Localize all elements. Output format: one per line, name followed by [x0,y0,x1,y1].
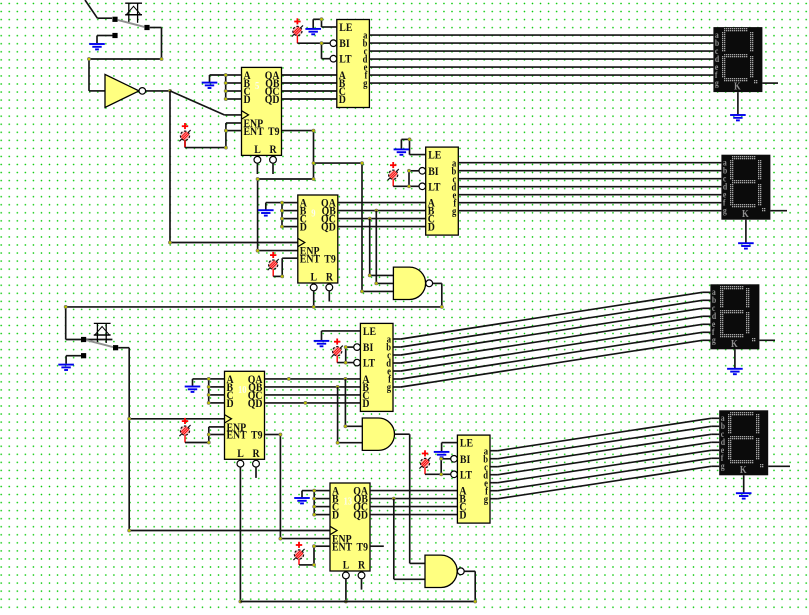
decoder U4 (74LS47) [419,147,458,235]
svg-text:LE: LE [428,149,441,162]
counter U5 (74LS160) [225,371,265,467]
wire U7 T9 stub [370,545,384,547]
svg-text:D: D [339,93,346,106]
svg-text:ENT: ENT [244,125,265,138]
power VCC5 for U5 enables [179,418,190,436]
NAND gate U9 [393,267,432,299]
svg-text:T9: T9 [324,253,336,266]
svg-text:13: 13 [344,496,353,508]
svg-text:LT: LT [428,180,441,193]
svg-text:T9: T9 [268,125,280,138]
wire U3 QB tap to U9 input [375,211,394,285]
svg-text:g: g [723,205,727,216]
ground for U7 inputs [294,498,310,503]
counter U7 (74LS160) [330,483,370,579]
switch SW2 (SPDT) [81,323,118,358]
wire U5 QB tap to U10 input [336,387,362,444]
7-segment display DS3 [710,284,759,350]
ground for SW1 [89,44,105,49]
wire U7 R pin stub [361,579,363,590]
svg-text:LT: LT [363,357,376,370]
7-segment display DS4 [719,410,768,476]
svg-text:K: K [740,464,747,476]
wire DS2 anode stub [770,210,787,212]
wire U5 T9 cascade to U7 ENP [265,433,331,540]
wire U7 data inputs A-D bus to ground [302,489,330,516]
wire U1 L pin stub [256,163,258,174]
wire U11 output to U5/U7 L pins [240,571,476,603]
wire U5 L pin to U11 output net [239,467,242,603]
ground for DS2 [738,243,754,248]
svg-text:R: R [358,559,366,572]
wire U4 LE to ground [401,138,425,155]
ground for DS1 [730,115,746,120]
svg-text:LT: LT [460,468,473,481]
svg-text:BI: BI [460,453,470,466]
wire U4 outputs a-g to display DS2 [458,163,721,211]
wire U2 LE to ground [313,18,337,29]
ground for U4 LE [394,149,410,154]
wire DS1 anode stub [762,82,778,84]
svg-text:LE: LE [460,437,473,450]
svg-text:g: g [484,494,488,506]
svg-text:g: g [715,77,719,88]
wire U6 outputs a-g to display DS3 [393,292,710,387]
svg-text:K: K [742,208,749,220]
wire U6 LE to ground [322,331,361,340]
ground for DS3 [727,369,743,374]
wire DS2 K to ground [745,220,747,243]
wire DS4 anode stub [768,465,790,467]
wire U5 R pin stub [255,467,257,478]
svg-text:R: R [270,143,278,156]
svg-text:D: D [332,509,339,522]
svg-text:R: R [326,271,334,284]
NAND gate U11 [425,555,464,587]
svg-text:L: L [311,271,318,284]
wire CLK1 down to counter U3 clock [168,91,297,244]
wire VCC8 red stem [424,467,426,474]
svg-text:QD: QD [265,93,280,106]
wire U1 data inputs A-D bus to ground [210,73,242,100]
wire U3 R pin stub [328,291,330,302]
7-segment display DS1 [713,27,762,93]
wire U8 outputs a-g to display DS4 [490,418,719,498]
wire VCC5 red stem [184,435,186,443]
wire U5 QA-QD to U6 A-D [265,377,361,404]
wire VCC1 red stem [184,140,186,147]
svg-text:T9: T9 [251,429,263,442]
power VCC3 for U3 ENT [268,252,279,270]
wire DS1 K to ground [737,92,739,114]
svg-text:D: D [428,221,435,234]
wire U9 output to U3 L and SW2 [64,283,443,339]
svg-text:L: L [343,559,350,572]
wire U10 output to U11 input [395,434,425,563]
svg-text:BI: BI [428,165,438,178]
wire U1 QA-QD to U2 A-D [282,75,337,99]
wire from off-page to SW1 common [85,0,112,18]
ground for U2 LE [305,29,321,34]
svg-text:D: D [362,397,369,410]
wire U3 L pin to node [313,291,315,307]
svg-text:D: D [300,221,307,234]
wire VCC5 to U5 ENP/ENT [185,427,225,444]
wire VCC6 to U6 LT and BI [337,346,353,365]
wire SW1 pole to ground [97,36,113,44]
wire U7 L pin to U11 output net [344,579,347,603]
svg-text:g: g [452,206,456,218]
svg-text:10: 10 [238,384,247,396]
wire U7 QB tap to U11 input [394,499,425,580]
ground for DS4 [736,493,752,498]
power VCC7 for U7 ENT [293,542,304,560]
wire U1 R pin stub [272,163,274,174]
svg-text:5: 5 [255,80,259,92]
wire VCC8 to U8 LT and BI [425,457,451,476]
wire VCC7 to U7 ENT [299,545,330,567]
wire DS4 K to ground [743,475,745,492]
power VCC4 for U4 BI/LT [388,162,399,180]
counter U1 (74LS160) [242,67,282,163]
power VCC8 for U8 BI/LT [419,450,430,468]
wire VCC4 to U4 LT and BI [393,169,419,188]
svg-text:K: K [734,81,741,93]
wire U3 QA-QD to U4 A-D [338,203,426,227]
wire VCC7 red stem [298,559,300,565]
wire DS3 anode stub [759,339,775,341]
wire VCC2 red stem [296,35,298,43]
svg-text:QD: QD [248,397,263,410]
switch SW1 (SPDT) [112,3,149,38]
svg-text:BI: BI [339,37,349,50]
ground for SW2 [58,365,74,370]
wire U3 data inputs A-D bus to ground [266,201,298,228]
svg-text:K: K [731,338,738,350]
ground for U5 inputs [185,387,201,392]
wire U7 QA-QD to U8 A-D [370,491,457,515]
wire U2 outputs a-g to display DS1 [369,35,713,83]
svg-text:g: g [387,382,391,394]
wire inverter output node CLK1 [146,89,172,92]
wire DS3 K to ground [734,349,736,368]
wire U1 T9 cascade to U3 ENP [256,129,315,252]
svg-text:g: g [721,460,725,471]
svg-text:ENT: ENT [332,541,353,554]
wire SW1 output down-left to inverter input [87,28,163,91]
svg-text:LE: LE [339,21,352,34]
7-segment display DS2 [721,155,770,221]
wire VCC3 to U3 ENT [273,258,298,278]
wire SW2 pole to ground [66,356,81,364]
power VCC1 for U1 enables [179,123,190,141]
ground for U3 inputs [258,210,274,215]
wire VCC3 red stem [272,269,274,276]
inverter U2 (NOT gate) [105,74,146,107]
svg-text:LE: LE [363,325,376,338]
wire U8 LE to ground [442,443,458,452]
wire VCC6 red stem [336,356,338,363]
wire U5 data inputs A-D bus to ground [193,377,225,404]
svg-text:g: g [712,334,716,345]
svg-text:9: 9 [311,208,315,220]
wire U5 QA tap to U10 input [344,379,363,428]
decoder U2 (74LS47) [330,20,369,108]
wire VCC1 to U1 ENP/ENT [185,123,242,149]
svg-text:D: D [244,93,251,106]
svg-text:D: D [227,397,234,410]
svg-text:L: L [237,447,244,460]
ground for U8 LE [434,452,450,457]
wire T9 chain branch to NAND U9 input [312,162,394,294]
svg-text:ENT: ENT [227,429,248,442]
ground for U6 LE [314,341,330,346]
wire CLK1 to counter U1 clock [170,91,242,115]
svg-text:BI: BI [363,341,373,354]
svg-text:R: R [253,447,261,460]
svg-text:D: D [459,509,466,522]
svg-text:ENT: ENT [300,253,321,266]
svg-text:L: L [254,143,261,156]
power VCC2 for U2 BI/LT [292,18,303,36]
wire SW2 output to U5 clock and U7 clock [118,348,330,532]
AND gate U10 [362,418,394,450]
svg-text:T9: T9 [357,541,369,554]
counter U3 (74LS160) [298,195,338,291]
svg-text:QD: QD [353,509,368,522]
decoder U6 (74LS47) [354,323,393,411]
wire VCC4 red stem [392,179,394,186]
ground for U1 inputs [202,83,218,88]
svg-text:g: g [363,78,367,90]
svg-text:LT: LT [339,53,352,66]
wire VCC2 to U2 BI and LT [297,42,330,59]
power VCC6 for U6 BI/LT [332,339,343,357]
svg-text:QD: QD [321,221,336,234]
wire U3 QC tap to U9 input [368,219,393,277]
decoder U8 (74LS47) [451,435,490,523]
